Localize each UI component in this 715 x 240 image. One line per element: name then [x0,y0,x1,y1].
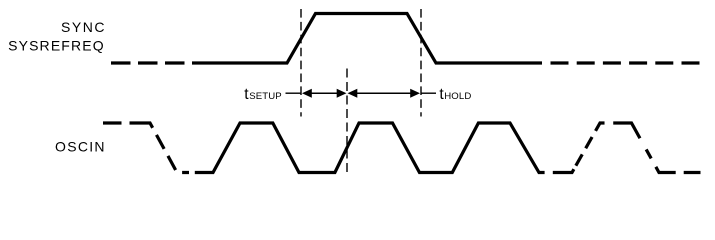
svg-text:SETUP: SETUP [249,91,281,102]
wire SYNC solid pulse: low, rise, high, fall, low [212,14,543,64]
node tSETUP label [244,86,282,103]
wire tHOLD dimension arrow (double-headed) [348,89,421,98]
svg-text:OSCIN: OSCIN [55,138,106,154]
svg-text:SYSREFREQ: SYSREFREQ [8,37,105,53]
wire OSCIN solid clock cycles [195,123,545,173]
svg-text:SYNC: SYNC [61,19,106,35]
svg-text:HOLD: HOLD [444,91,471,102]
wire SYNC low level dashed (right) [551,61,702,64]
node reference line at SYNC falling edge [420,9,422,117]
node reference line at SYNC rising edge [300,9,302,117]
wire leader to tHOLD label [421,92,436,94]
wire OSCIN dashed segment (right): low, rise, high, fall, low [553,123,701,173]
node tHOLD label [439,86,471,103]
node SYNC/SYSREFREQ signal name label [8,19,106,53]
wire SYNC low level dashed (left) [111,61,212,64]
wire leader from tSETUP label [286,92,302,94]
wire OSCIN dashed segment (left): high, fall, low [103,123,189,173]
node reference line at OSCIN rising edge (center) [346,69,348,173]
wire tSETUP dimension arrow (double-headed) [302,89,347,98]
